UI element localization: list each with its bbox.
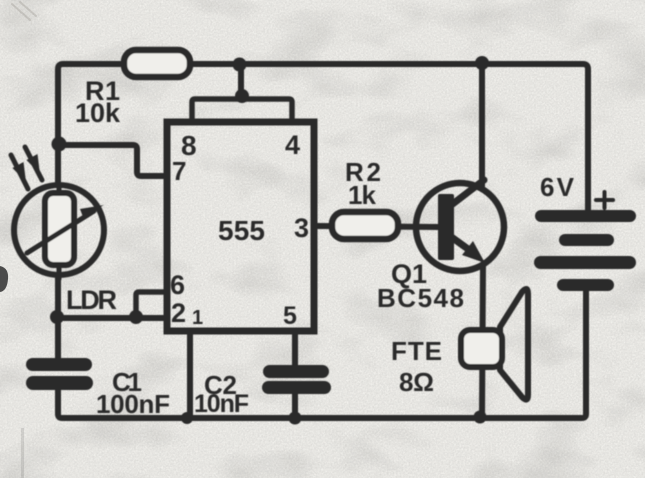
svg-text:LDR: LDR bbox=[66, 285, 117, 315]
svg-text:3: 3 bbox=[294, 213, 309, 243]
svg-text:2: 2 bbox=[171, 298, 186, 328]
svg-text:BC548: BC548 bbox=[377, 283, 464, 313]
svg-text:1: 1 bbox=[192, 307, 203, 329]
svg-text:1k: 1k bbox=[348, 180, 377, 210]
svg-text:10k: 10k bbox=[75, 98, 121, 128]
svg-text:FTE: FTE bbox=[391, 336, 442, 366]
svg-text:4: 4 bbox=[285, 130, 300, 160]
svg-text:8Ω: 8Ω bbox=[399, 367, 434, 397]
svg-text:5: 5 bbox=[283, 302, 297, 330]
svg-text:6: 6 bbox=[170, 270, 185, 300]
svg-text:10nF: 10nF bbox=[194, 390, 249, 418]
svg-text:7: 7 bbox=[172, 156, 186, 186]
svg-text:100nF: 100nF bbox=[96, 389, 170, 419]
svg-text:555: 555 bbox=[218, 215, 265, 246]
svg-text:6V: 6V bbox=[540, 172, 575, 202]
